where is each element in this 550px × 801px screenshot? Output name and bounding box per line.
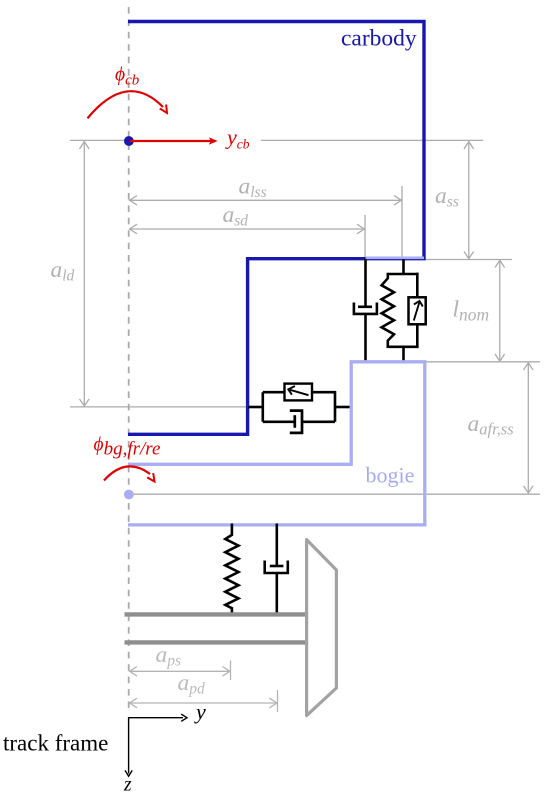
svg-text:y: y — [194, 699, 206, 724]
dimension l_nom vertical arrow — [495, 260, 505, 361]
secondary vertical damper cup — [354, 303, 377, 314]
secondary suspension top bracket — [388, 273, 419, 276]
lateral actuator arrow — [290, 390, 309, 395]
primary damper cup (open top) — [265, 561, 288, 574]
primary damper piston plate — [270, 565, 284, 568]
wheel profile — [307, 540, 337, 716]
dimension a_pd — [129, 690, 278, 712]
secondary actuator box — [409, 297, 426, 324]
phi_cb arc (red) — [88, 91, 168, 118]
dimension a_ss vertical arrow — [464, 141, 474, 259]
wheelset axle lower bar — [125, 640, 307, 644]
svg-text:bogie: bogie — [366, 463, 415, 488]
primary damper rod upper — [275, 524, 278, 567]
dimension line at carbody pivot level — [70, 139, 483, 141]
svg-text:track frame: track frame — [3, 731, 108, 756]
y_cb axis arrow (red) — [130, 137, 218, 145]
track frame axes — [125, 714, 187, 776]
svg-text:ϕbg,fr/re: ϕbg,fr/re — [94, 435, 161, 460]
secondary vertical damper rod — [364, 258, 367, 308]
secondary actuator branch lower — [416, 324, 419, 348]
secondary actuator arrow — [414, 303, 420, 321]
centerline (vehicle symmetry axis, dashed) — [128, 7, 130, 710]
lateral link right stub — [335, 406, 350, 409]
phi_bg arc (red) — [104, 466, 155, 481]
wheelset axle upper bar — [125, 612, 307, 616]
lateral link frame — [263, 392, 335, 422]
primary spring (zigzag) — [225, 524, 238, 614]
dimension a_afr,ss vertical arrow — [524, 363, 534, 494]
carbody outline — [128, 22, 424, 435]
lateral link left stub — [248, 406, 263, 409]
bogie outline — [128, 362, 425, 525]
dimension a_sd horizontal arrow — [129, 215, 365, 259]
carbody pivot dot — [124, 136, 134, 146]
dimension a_ld vertical line — [80, 141, 90, 407]
lateral damper piston plate — [293, 415, 296, 428]
svg-text:z: z — [123, 775, 132, 796]
primary damper rod lower — [275, 573, 278, 614]
secondary suspension top stem — [402, 258, 405, 274]
lateral damper cup (open left) — [290, 411, 302, 433]
bogie top overlap segment on carbody step — [366, 256, 425, 259]
dimension line at bogie pivot level — [133, 493, 540, 495]
secondary actuator branch upper — [416, 273, 419, 298]
extension line at suspension top level — [424, 259, 512, 261]
lateral actuator box — [285, 384, 313, 401]
dimension a_ps — [129, 661, 231, 681]
svg-text:carbody: carbody — [341, 25, 417, 51]
bogie pivot dot — [124, 490, 134, 500]
secondary spring (zigzag) — [382, 273, 394, 348]
secondary vertical damper piston plate — [358, 305, 372, 308]
dimension line at a_ld bottom / lateral link level — [70, 406, 247, 408]
secondary suspension bottom bracket — [388, 345, 419, 348]
extension line at bogie top level — [425, 361, 540, 363]
secondary suspension bottom stem — [402, 347, 405, 362]
dimension a_lss horizontal arrow — [129, 186, 402, 259]
